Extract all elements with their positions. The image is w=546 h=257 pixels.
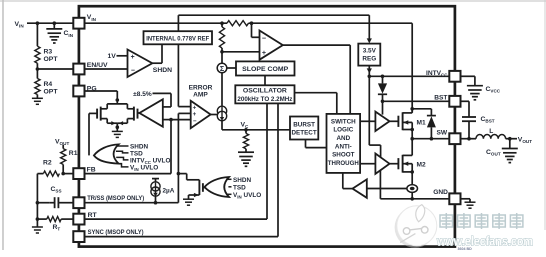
junction M1 source [410, 128, 414, 132]
svg-text:DETECT: DETECT [291, 130, 316, 137]
wire 8.5% to comparator input [153, 92, 172, 94]
wire R3 to EN junction [36, 63, 38, 69]
resistor RT [47, 217, 61, 222]
svg-text:ANTI-: ANTI- [335, 143, 352, 150]
svg-text:AMP: AMP [193, 92, 208, 99]
junction TR/SS discharge branch [177, 172, 181, 176]
transistor M1 [397, 116, 399, 127]
junction at COUT [508, 137, 512, 141]
wire driver to M2 gate [390, 163, 399, 165]
wire error amp to gm [211, 114, 218, 116]
wire REF box to 3.5V REG [178, 14, 369, 16]
svg-text:GND: GND [433, 189, 448, 196]
watermark chinese text [440, 213, 453, 229]
svg-text:VIN UVLO: VIN UVLO [130, 165, 158, 173]
svg-text:REG: REG [362, 56, 376, 63]
svg-text:±8.5%: ±8.5% [133, 91, 152, 98]
junction FB divider [61, 172, 65, 176]
U3 input SHDN [117, 145, 128, 147]
wire VIN to R3 [36, 23, 38, 46]
wire gm to VC [221, 121, 223, 130]
transistor pair Q1 Q2 PG pulldown [116, 100, 118, 104]
block INTERNAL 0.778V REF [144, 31, 213, 44]
wire sigma to slope comp [227, 67, 236, 69]
junction FB node [169, 118, 173, 122]
wire switch logic to M2 driver [360, 163, 375, 165]
svg-text:SHDN: SHDN [153, 67, 172, 74]
wire plus node to sigma [221, 52, 223, 63]
wire FB to U2 input [163, 119, 171, 121]
wire plus node to comparator [222, 51, 260, 53]
svg-text:SHDN: SHDN [233, 177, 251, 184]
wire oscillator to switch logic [295, 92, 337, 94]
wire minus node to comparator [251, 23, 253, 37]
junction VIN at vertical resistor [220, 21, 224, 25]
ground below R4 [32, 97, 43, 99]
wire VIN rail down to M1 drain [411, 23, 413, 112]
svg-text:SYNC (MSOP ONLY): SYNC (MSOP ONLY) [88, 229, 144, 236]
junction RT rail [36, 217, 40, 221]
junction BST at diode [381, 100, 385, 104]
wire SYNC pin to oscillator [84, 236, 278, 238]
junction INTVCC at REG output [368, 75, 372, 79]
rail SW [412, 138, 449, 140]
U5 input TSD [228, 186, 231, 188]
wire RT resistor to pin [61, 218, 73, 220]
IC boundary box [79, 6, 455, 246]
pin PG [73, 86, 84, 97]
compensation resistor at VC [245, 130, 247, 134]
wire burst detect to switch logic [305, 140, 307, 148]
current source gm output [217, 106, 226, 115]
block OSCILLATOR [235, 85, 294, 103]
svg-text:200kHz TO 2.2MHz: 200kHz TO 2.2MHz [237, 96, 292, 103]
junction EN divider [36, 67, 40, 71]
wire TR/SS riser to error amp [178, 112, 190, 114]
current source 2uA [152, 178, 159, 180]
capacitor COUT [509, 139, 511, 149]
wire VIN rail to right corner [249, 22, 413, 24]
block SWITCH LOGIC AND ANTI-SHOOT THROUGH [327, 114, 361, 173]
wire into 3.5V REG with arrow [368, 15, 370, 39]
pin INTVCC [449, 71, 460, 82]
U5 input VIN UVLO [226, 193, 231, 195]
wire to RT resistor [37, 218, 46, 220]
capacitor CBST [462, 116, 476, 118]
pin BST [449, 96, 460, 107]
sense resistor on VIN rail [227, 21, 249, 26]
junction M2 source [410, 170, 414, 174]
wire M2 driver to ground rail [379, 170, 381, 198]
pin RT [73, 214, 84, 225]
driver U8 bottom gate [375, 154, 389, 174]
op-amp U9 reverse comparator [353, 179, 367, 197]
ground at GND pin [465, 201, 476, 203]
wire R2 to left rail [37, 173, 43, 175]
resistor R2 [43, 171, 59, 176]
wire FB to error amp minus [171, 119, 191, 121]
svg-text:OPT: OPT [44, 56, 59, 63]
wire RT pin to oscillator [84, 218, 267, 220]
wire slope comp to oscillator [264, 76, 266, 86]
page frame [2, 0, 4, 250]
svg-text:1V: 1V [108, 53, 117, 60]
svg-text:THROUGH: THROUGH [328, 160, 359, 167]
svg-text:BURST: BURST [293, 122, 315, 129]
op-amp U2 PG comparator [139, 99, 162, 126]
wire REG to INTVCC rail with arrow [368, 66, 370, 77]
U3 input TSD [116, 151, 129, 153]
summer sigma [217, 63, 227, 73]
svg-text:M1: M1 [417, 119, 426, 126]
svg-text:R1: R1 [69, 150, 78, 157]
junction M1 drain to VIN rail [410, 107, 414, 111]
wire CBST to SW [468, 121, 470, 139]
transistor M2 [397, 158, 399, 169]
diode boost [382, 76, 384, 83]
block BURST DETECT [290, 117, 318, 140]
junction sense at ground rail [410, 197, 414, 201]
wire inductor to VOUT [506, 138, 517, 140]
svg-text:TSD: TSD [233, 184, 246, 191]
compensation cap and ground at VC [245, 149, 247, 152]
svg-text:2µA: 2µA [163, 187, 175, 194]
wire R4 to ground [36, 95, 38, 99]
wire left gate from OR gate [89, 112, 97, 114]
wire PG pin to transistors [84, 90, 117, 92]
pin GND [449, 193, 460, 204]
wire TR/SS pin [84, 202, 178, 204]
junction TR/SS at 2uA [154, 201, 158, 205]
wire BST to M1 driver [382, 101, 384, 114]
svg-text:+: + [131, 54, 135, 61]
junction VIN after sense resistor [250, 21, 254, 25]
wire R1 to FB [62, 164, 64, 173]
wire rail segment [36, 203, 38, 227]
driver U7 top gate [375, 112, 389, 131]
svg-text:+: + [262, 48, 266, 57]
wire VIN pin to sense resistor [84, 22, 227, 24]
capacitor CVCC [474, 76, 476, 85]
rail INTVCC [369, 75, 449, 77]
wire sense to ground rail [411, 192, 413, 198]
pin VIN [73, 18, 84, 29]
wire U6 output to switch logic [283, 44, 350, 46]
wire GND pin to ground [460, 198, 470, 200]
junction PG source [116, 125, 120, 129]
wire to discharge transistor [178, 173, 186, 175]
svg-text:3604 BD: 3604 BD [458, 247, 473, 251]
rail PGND [380, 198, 449, 200]
wire buffer to switch logic [343, 188, 353, 190]
wire EN/UV pin to comparator [84, 68, 127, 70]
svg-text:SW: SW [437, 129, 448, 136]
svg-text:BST: BST [434, 94, 447, 101]
watermark logo disc [395, 207, 436, 248]
capacitor CSS [54, 197, 56, 208]
junction body diode at SW [430, 137, 434, 141]
svg-text:INTERNAL 0.778V REF: INTERNAL 0.778V REF [146, 35, 209, 42]
vertical resistor from VIN rail [221, 23, 223, 27]
svg-text:EN/UV: EN/UV [87, 62, 108, 69]
svg-text:L: L [489, 128, 493, 135]
wire EN junction to R4 [36, 69, 38, 79]
svg-text:R4: R4 [44, 81, 53, 88]
wire REF down to error amp [177, 44, 179, 106]
svg-text:Σ: Σ [220, 64, 225, 73]
pin SYNC [73, 231, 84, 242]
pin TR/SS [73, 197, 84, 208]
wire VOUT to R1 [62, 145, 64, 149]
svg-text:TSD: TSD [130, 151, 143, 158]
junction CSS rail [36, 201, 40, 205]
svg-text:M2: M2 [417, 162, 426, 169]
svg-text:SWITCH: SWITCH [331, 118, 356, 125]
wire U2 output to right gate [138, 112, 140, 114]
wire sigma down to gm [221, 73, 223, 107]
junction CBST at SW [467, 137, 471, 141]
inductor L [476, 134, 506, 138]
svg-text:AND: AND [336, 135, 350, 142]
op-amp U6 current comparator [260, 31, 283, 60]
pin FB [73, 168, 84, 179]
wire FB pin to corner [84, 173, 171, 175]
svg-text:OSCILLATOR: OSCILLATOR [243, 88, 287, 95]
U3 input INTVCC UVLO [116, 157, 128, 160]
junction on VIN wire at R3 [36, 21, 40, 25]
ground below PG transistors [116, 128, 118, 131]
junction comparator plus node [220, 50, 224, 54]
wire to CSS [37, 202, 49, 204]
or-gate U3 [94, 144, 119, 163]
svg-text:−: − [193, 118, 197, 125]
svg-text:R3: R3 [44, 49, 53, 56]
svg-text:LOGIC: LOGIC [333, 127, 353, 134]
svg-text:TR/SS (MSOP ONLY): TR/SS (MSOP ONLY) [87, 195, 144, 202]
junction PG drain [116, 98, 120, 102]
svg-text:RT: RT [88, 212, 98, 219]
block SLOPE COMP [236, 61, 295, 75]
wire driver to M1 gate [390, 120, 399, 122]
pin EN/UV [73, 64, 84, 75]
capacitor CIN [53, 23, 55, 29]
wire switch logic to M1 driver [360, 120, 375, 122]
wire SW pin to inductor [460, 138, 476, 140]
svg-text:SLOPE COMP: SLOPE COMP [242, 66, 289, 73]
svg-text:www.elecfans.com: www.elecfans.com [436, 234, 533, 248]
svg-text:FB: FB [87, 166, 96, 173]
svg-text:ERROR: ERROR [189, 84, 213, 91]
wire U1 output to ref box [152, 62, 162, 64]
resistor R1 [61, 149, 66, 165]
junction on VIN wire at CIN [53, 21, 57, 25]
op-amp U1 shutdown comparator [128, 50, 153, 78]
diode M1 body [412, 108, 431, 110]
ground below Q3 [183, 198, 194, 200]
block 3.5V REG [358, 44, 380, 66]
op-amp U4 error amp [191, 101, 211, 128]
resistor R4 [35, 79, 40, 95]
junction SW at M1 source [410, 137, 414, 141]
svg-text:−: − [262, 33, 266, 42]
resistor R3 [35, 46, 40, 63]
svg-text:VIN UVLO: VIN UVLO [233, 192, 261, 200]
wire FB junction to pin [63, 173, 73, 175]
U3 input VIN UVLO [119, 164, 129, 167]
pin SW [449, 133, 460, 144]
svg-text:SHOOT: SHOOT [332, 152, 355, 159]
svg-text:−: − [131, 67, 135, 74]
or-gate U5 [205, 177, 230, 197]
wire VIN label to pin [27, 22, 74, 24]
wire INTVCC to M2 driver supply [368, 76, 370, 145]
svg-text:3.5V: 3.5V [363, 48, 377, 55]
wire sense to buffer [367, 188, 407, 190]
wire INTVCC pin to CVCC [460, 75, 475, 77]
svg-text:R2: R2 [43, 160, 52, 167]
rail BST [383, 100, 450, 102]
wire FB up to comparators [170, 120, 172, 174]
transistor Q3 TR/SS discharge [187, 179, 200, 181]
svg-text:OPT: OPT [44, 88, 59, 95]
wire BST pin to CBST [460, 100, 469, 102]
U5 input SHDN [226, 178, 231, 180]
wire EN junction to EN/UV pin [37, 68, 73, 70]
junction VC [244, 128, 248, 132]
svg-text:SHDN: SHDN [130, 144, 148, 151]
junction INTVCC at boost diode [381, 75, 385, 79]
ground at divider rail [32, 226, 43, 228]
current sense element [407, 185, 418, 193]
wire 1V to comparator [117, 55, 128, 57]
